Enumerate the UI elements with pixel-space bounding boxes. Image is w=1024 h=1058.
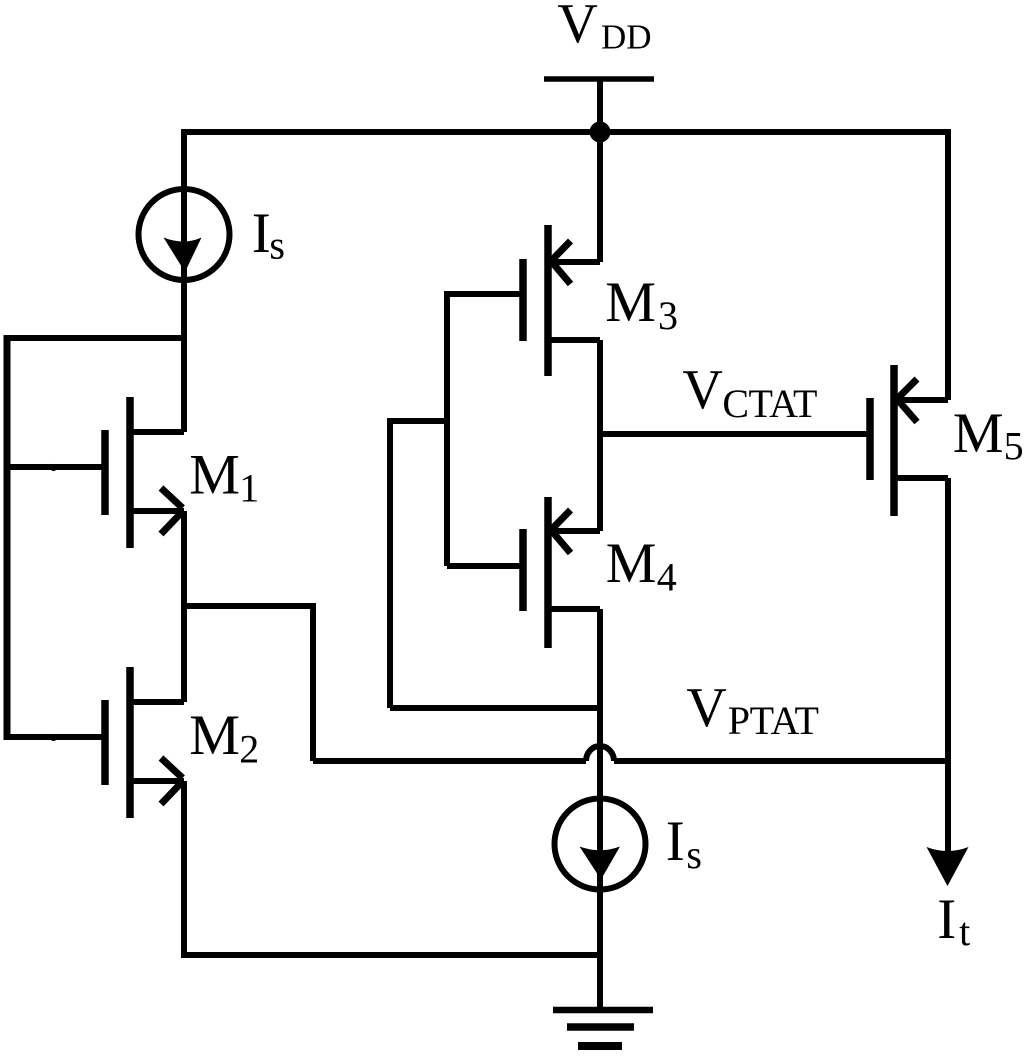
VDD supply bar (544, 76, 654, 82)
wire M1 gate (7, 464, 102, 470)
svg-text:CTAT: CTAT (722, 381, 817, 426)
svg-text:1: 1 (239, 466, 259, 511)
transistor M3 source line (551, 259, 600, 265)
wire branch vertical (310, 603, 316, 761)
transistor M2 source line (127, 778, 184, 784)
transistor M1 gate bar (101, 430, 109, 515)
svg-text:M: M (189, 444, 240, 507)
svg-text:PTAT: PTAT (728, 698, 819, 743)
svg-text:DD: DD (601, 17, 652, 56)
wire gate tie vertical (444, 291, 450, 566)
wire bottom rail (181, 952, 600, 958)
svg-text:s: s (269, 223, 285, 268)
wire VPTAT right segment (614, 758, 948, 764)
transistor M2 source arrow (161, 758, 183, 804)
svg-text:3: 3 (658, 293, 678, 338)
wire VPTAT left segment (313, 758, 586, 764)
transistor M1 channel bar (126, 397, 134, 548)
svg-text:I: I (666, 810, 685, 873)
ground bar 2 (567, 1023, 634, 1031)
current source Is1 arrow (164, 238, 202, 273)
transistor M4 drain line (551, 606, 600, 612)
transistor M5 source line (897, 397, 948, 403)
transistor M1 source line (127, 508, 184, 514)
transistor M2 drain line (127, 699, 184, 705)
transistor M3 drain line (551, 337, 600, 343)
transistor M5 gate bar (866, 398, 874, 480)
transistor M3 gate bar (519, 259, 527, 341)
wire VDD stub (597, 79, 603, 132)
wire M2 gate (7, 734, 102, 740)
svg-text:M: M (953, 402, 1004, 465)
wire M3 gate (447, 291, 523, 297)
transistor M5 source arrow (896, 379, 917, 422)
wire M4 drain down to Is2 (597, 609, 603, 800)
transistor M3 source arrow (550, 241, 571, 284)
wire gate tie horizontal (390, 418, 447, 424)
wire gate feedback vertical (387, 418, 393, 708)
wire M1 source to M2 drain (181, 511, 187, 702)
wire gate feedback horizontal (390, 705, 600, 711)
wire M2 source down (181, 781, 187, 958)
It arrowhead (927, 847, 969, 886)
svg-text:t: t (959, 909, 970, 954)
wire left drop VDD to M1 drain (181, 129, 187, 432)
transistor M3 channel bar (544, 225, 552, 376)
svg-text:s: s (686, 832, 702, 877)
transistor M1 drain line (127, 429, 184, 435)
wire Is2 to ground (597, 888, 603, 1010)
svg-text:M: M (606, 532, 657, 595)
VPTAT wire hop (586, 746, 614, 761)
wire center drop VDD to M3 source (597, 132, 603, 262)
svg-text:V: V (557, 0, 597, 55)
transistor M4 source line (551, 528, 600, 534)
wire M5 drain to It (945, 478, 951, 855)
svg-text:V: V (686, 677, 726, 739)
junction dot VDD node (590, 122, 611, 143)
svg-text:I: I (937, 888, 956, 951)
wire VCTAT (600, 431, 867, 437)
junction tick on M1 gate wire (50, 464, 57, 471)
transistor M4 source arrow (550, 510, 571, 553)
svg-text:4: 4 (657, 555, 677, 600)
transistor M5 drain line (897, 475, 948, 481)
svg-text:2: 2 (239, 727, 259, 772)
transistor M2 gate bar (101, 700, 109, 785)
current source Is2 circle (555, 799, 646, 890)
current source Is1 circle (139, 189, 230, 280)
transistor M5 channel bar (890, 365, 898, 516)
svg-text:5: 5 (1004, 424, 1024, 469)
svg-text:M: M (189, 704, 240, 767)
wire left gate rail (4, 335, 11, 740)
wire branch horizontal (184, 603, 313, 609)
wire through Is2 (597, 800, 603, 888)
transistor M2 channel bar (126, 667, 134, 818)
transistor M4 channel bar (544, 497, 552, 648)
wire M3 drain to M4 source (597, 340, 603, 531)
transistor M4 gate bar (519, 529, 527, 611)
ground bar 1 (553, 1007, 653, 1014)
wire M4 gate (447, 563, 523, 569)
junction tick on M2 gate wire (50, 734, 57, 741)
ground bar 3 (578, 1042, 622, 1050)
svg-text:V: V (682, 359, 722, 421)
wire right rail (945, 129, 951, 400)
svg-text:I: I (252, 202, 271, 265)
wire upper-left horizontal (7, 335, 184, 341)
transistor M1 source arrow (161, 488, 183, 534)
current source Is2 arrow (580, 847, 621, 880)
wire top rail (181, 129, 949, 135)
svg-text:M: M (605, 271, 656, 334)
